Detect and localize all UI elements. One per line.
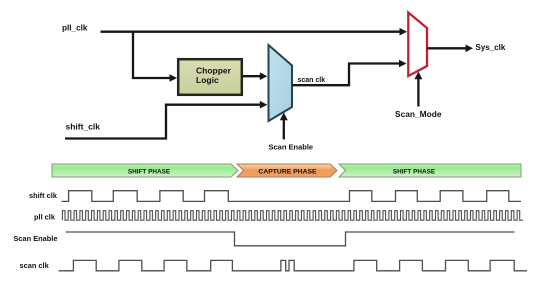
mux U3 sys mux bbox=[408, 13, 427, 77]
svg-text:pll clk: pll clk bbox=[34, 213, 56, 222]
svg-text:shift_clk: shift_clk bbox=[66, 122, 101, 132]
svg-text:SHIFT PHASE: SHIFT PHASE bbox=[128, 169, 171, 176]
svg-text:Scan Enable: Scan Enable bbox=[14, 234, 58, 243]
chopper logic U1 bbox=[178, 59, 242, 95]
svg-text:Scan Enable: Scan Enable bbox=[269, 143, 314, 152]
phase bar shift phase 2 bbox=[339, 164, 521, 177]
wire pll_clk to sys mux input 0 bbox=[101, 31, 401, 33]
wire Scan Enable arrow into scan mux select bbox=[283, 119, 285, 139]
svg-text:Chopper: Chopper bbox=[196, 66, 232, 76]
wire pll_clk tap down to chopper input bbox=[133, 32, 170, 78]
svg-text:Logic: Logic bbox=[196, 75, 219, 85]
svg-text:pll_clk: pll_clk bbox=[62, 24, 88, 33]
wire Scan Enable waveform bbox=[66, 232, 515, 246]
wire shift_clk to scan mux input 1 bbox=[65, 105, 260, 139]
svg-text:CAPTURE PHASE: CAPTURE PHASE bbox=[258, 169, 317, 176]
wire pll clk waveform bbox=[62, 211, 523, 221]
phase bar shift phase 1 bbox=[52, 164, 238, 177]
wire Sys_clk output bbox=[427, 47, 466, 49]
wire scan clk to sys mux input 1 bbox=[292, 64, 399, 86]
svg-text:Scan_Mode: Scan_Mode bbox=[395, 109, 442, 119]
svg-text:SHIFT PHASE: SHIFT PHASE bbox=[393, 169, 436, 176]
mux U2 scan mux bbox=[269, 45, 293, 121]
phase bar capture phase bbox=[237, 164, 337, 177]
svg-text:scan clk: scan clk bbox=[298, 77, 326, 84]
svg-text:scan clk: scan clk bbox=[20, 261, 50, 270]
wire Scan_Mode arrow into sys mux select bbox=[417, 78, 419, 107]
wire chopper output to scan mux input 0 bbox=[243, 75, 260, 77]
wire scan clk waveform bbox=[59, 260, 528, 270]
svg-text:shift clk: shift clk bbox=[29, 191, 58, 200]
svg-text:Sys_clk: Sys_clk bbox=[476, 43, 506, 52]
wire shift clk waveform bbox=[62, 191, 522, 202]
